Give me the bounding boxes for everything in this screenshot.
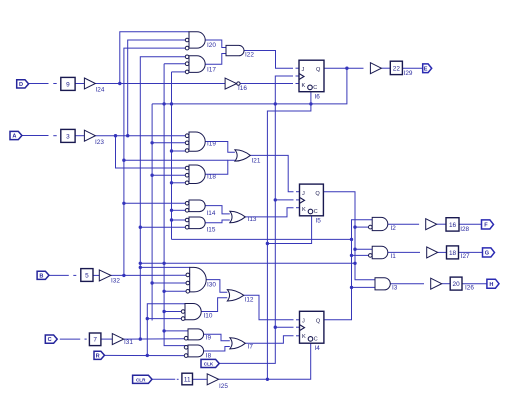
junction Q5 fb right end: [353, 262, 356, 265]
junction CLK tap I5: [274, 198, 277, 201]
svg-text:I10: I10: [204, 312, 213, 319]
wire I3 out to buffer I26: [390, 283, 424, 285]
wire Q of I5 to V2: [323, 192, 375, 280]
wire CLR row dash: [177, 378, 179, 380]
junction CLR link I5: [266, 242, 269, 245]
svg-text:I31: I31: [124, 339, 133, 346]
junction C tap I30: [139, 266, 142, 269]
junction R bracket tap: [146, 317, 149, 320]
wire I21 out to J of I5: [250, 155, 293, 191]
wire I19 out to I21: [205, 142, 235, 153]
junction A drop I18: [114, 134, 117, 137]
and gate I10: [181, 304, 201, 321]
wire C tap to I15 bottom: [140, 226, 185, 228]
wire I29 buffer in: [381, 67, 390, 69]
junction V1 tap I3: [350, 286, 353, 289]
junction CLR on I25 line: [266, 378, 269, 381]
wire Q of I4 to V1: [324, 220, 372, 320]
svg-text:Q: Q: [315, 191, 320, 197]
svg-text:I28: I28: [460, 226, 469, 233]
svg-text:R: R: [96, 353, 100, 359]
junction Q5 tap I30 bottom: [162, 290, 165, 293]
wire CLK stub I4: [296, 326, 299, 328]
junction C tap I15: [139, 226, 142, 229]
wire J stub I4: [296, 319, 299, 321]
wire J stub I6: [296, 67, 299, 69]
svg-text:Q: Q: [316, 318, 321, 324]
wire I1 out to buffer I27: [388, 251, 420, 253]
box 3: [61, 129, 75, 142]
wire B row to I30 second input: [111, 274, 187, 276]
box 20: [450, 277, 462, 290]
svg-text:I1: I1: [391, 253, 397, 260]
wire I17 mid feeder: [164, 63, 185, 65]
svg-text:20: 20: [453, 281, 461, 288]
box 11: [182, 373, 193, 385]
wire D/K net inverter out to K of I6: [241, 83, 294, 85]
wire I28 buffer to box: [437, 223, 446, 225]
wire I7 out to K of I4: [245, 336, 293, 343]
svg-text:I16: I16: [238, 85, 247, 92]
junction Q4 tap I19: [170, 149, 173, 152]
wire I9 out to I7: [203, 334, 229, 340]
wire V1 tap to I3 lower: [352, 286, 376, 288]
junction Q6 tap I18: [150, 174, 153, 177]
junction long feeder left end: [122, 159, 125, 162]
output terminal F: [482, 220, 494, 229]
and gate I17: [185, 55, 205, 74]
svg-text:I26: I26: [465, 284, 474, 291]
svg-text:7: 7: [93, 337, 97, 344]
junction Q6 riser I17 bottom: [170, 102, 173, 105]
wire I28 box to pentagon: [459, 223, 482, 225]
junction Q5 bus source: [162, 262, 165, 265]
or gate I7: [230, 338, 246, 349]
wire Q5 feedback horizontal: [140, 262, 355, 264]
and gate I14: [185, 200, 205, 212]
wire Q5 bus vertical: [164, 64, 186, 346]
svg-text:I13: I13: [248, 216, 257, 223]
and gate I19: [185, 132, 205, 152]
svg-text:C: C: [314, 209, 318, 215]
junction Q4 tap I14: [170, 209, 173, 212]
wire Q4 tap to I14 bottom: [172, 209, 186, 211]
wire Q4 tap to I18 bottom: [172, 182, 186, 184]
svg-text:C: C: [48, 337, 52, 343]
wire I15 out to I13: [205, 220, 230, 223]
junction Q5 tap I9: [162, 329, 165, 332]
wire C row dash: [85, 338, 87, 340]
box 5: [81, 269, 93, 282]
wire CLR link to I5 clear pin: [267, 216, 311, 244]
wire I10 out to I12: [201, 298, 227, 312]
box 7: [89, 333, 101, 346]
input terminal D: [17, 80, 29, 88]
svg-text:I4: I4: [315, 345, 321, 352]
svg-text:I19: I19: [207, 141, 216, 148]
svg-text:I30: I30: [207, 282, 216, 289]
junction Q6 tap I19 mid: [150, 141, 153, 144]
wire Q6 tap to I18 mid: [152, 174, 185, 176]
buffer I26: [431, 278, 442, 289]
input terminal CLK: [201, 359, 219, 367]
svg-text:I9: I9: [206, 335, 212, 342]
output terminal H: [487, 279, 499, 288]
wire D row main to inverter I16: [95, 83, 225, 85]
svg-text:11: 11: [184, 376, 191, 383]
wire D row dash: [53, 83, 56, 85]
wire K stub I4: [296, 335, 299, 337]
wire I20 out to I22: [205, 40, 226, 48]
svg-text:I23: I23: [95, 139, 104, 146]
wire B row dash: [73, 274, 76, 276]
buffer I31: [112, 334, 123, 345]
wire Q4 feedback horizontal: [172, 238, 352, 240]
svg-text:I22: I22: [245, 52, 254, 59]
input terminal R: [94, 351, 105, 359]
wire I2 out to buffer I28: [388, 223, 419, 225]
wire I12 out to J of I4: [244, 295, 294, 320]
svg-text:C: C: [314, 337, 318, 343]
wire CLR pentagon to box 11: [153, 378, 176, 380]
svg-text:5: 5: [85, 272, 89, 279]
wire I13 out to K of I5: [245, 208, 293, 217]
buffer I29: [370, 63, 381, 74]
junction Q5 tap I10: [162, 310, 165, 313]
wire A riser to I20 mid: [128, 40, 186, 136]
svg-text:18: 18: [449, 250, 457, 257]
inverter I16: [225, 78, 240, 89]
box 16: [446, 218, 459, 231]
junction Q4 tap I18: [170, 181, 173, 184]
wire B riser to I20 bottom: [124, 48, 185, 275]
junction CLR pin crossing: [309, 102, 312, 105]
junction Q5 fb left end: [139, 262, 142, 265]
and gate I15: [185, 217, 205, 229]
wire CLK stub I6: [296, 75, 299, 77]
or gate I12: [227, 290, 244, 301]
and gate I8: [184, 345, 203, 357]
svg-text:I14: I14: [207, 210, 216, 217]
svg-text:I29: I29: [404, 70, 413, 77]
or gate I13: [230, 211, 246, 223]
wire CLK tap to I4 clock: [275, 326, 293, 328]
junction Q4 fb right end: [350, 238, 353, 241]
svg-text:D: D: [19, 82, 23, 88]
wire long feeder to I21 lower: [124, 159, 228, 161]
junction B tap I14: [122, 202, 125, 205]
wire CLK row: [219, 76, 293, 363]
input terminal CLR: [133, 375, 152, 383]
svg-text:J: J: [302, 318, 305, 324]
svg-text:A: A: [12, 134, 16, 140]
svg-text:K: K: [302, 334, 306, 340]
input terminal B: [37, 271, 49, 279]
svg-text:K: K: [302, 207, 306, 213]
wire Q5 tap to I30 bottom: [164, 290, 187, 292]
or gate I21: [235, 150, 250, 161]
svg-text:B: B: [39, 273, 43, 279]
wire C input row: [60, 338, 80, 340]
junction A riser on A row: [126, 134, 129, 137]
wire B input row: [49, 274, 69, 276]
wire Q4 tap to I15 top: [172, 219, 186, 221]
wire A drop to I18 top: [116, 136, 186, 168]
box 9: [61, 77, 75, 90]
wire I30 out to I12: [206, 280, 227, 293]
svg-text:J: J: [302, 67, 305, 73]
wire Q6 feedback drop: [151, 104, 153, 321]
wire I27 box to pentagon: [459, 251, 483, 253]
wire B tap to I14 top: [124, 202, 185, 204]
wire Q4 bus vertical: [171, 72, 173, 240]
svg-text:J: J: [302, 191, 305, 197]
wire I18 out to I21: [205, 160, 235, 174]
junction V1 tap I1: [350, 254, 353, 257]
wire A row dash: [53, 135, 56, 137]
wire I22 out to J of I6: [244, 51, 293, 69]
buffer I28: [426, 219, 437, 230]
wire V2 tap to I2 lower: [355, 226, 370, 228]
wire I17 out to I22: [205, 54, 226, 65]
wire C riser to I17 top: [140, 57, 185, 339]
svg-text:I8: I8: [206, 353, 212, 360]
svg-text:I12: I12: [245, 297, 254, 304]
wire V2 tap to I1 top: [355, 248, 372, 250]
svg-text:Q: Q: [316, 67, 321, 73]
wire CLR net I25 out: [219, 343, 311, 379]
buffer I27: [427, 247, 438, 258]
wire A box to buffer: [75, 135, 84, 137]
jk flip-flop I5: [300, 184, 324, 224]
wire D buffer to box gap: [75, 83, 84, 85]
junction V2 tap I2: [353, 225, 356, 228]
output terminal E: [423, 64, 432, 73]
wire I27 buffer to box: [438, 251, 447, 253]
wire A row to I19 top input: [95, 135, 186, 137]
wire R riser bracket: [147, 304, 185, 356]
wire I26 box to pentagon: [462, 283, 487, 285]
wire R input row to I8 lower input: [105, 354, 185, 356]
wire D input row: [29, 83, 49, 85]
box 22: [390, 61, 402, 74]
wire Q5 tap to I10 mid: [164, 311, 183, 313]
svg-text:CLK: CLK: [204, 362, 214, 367]
junction Q6 tap I30: [150, 281, 153, 284]
junction C riser on C row: [139, 337, 142, 340]
wire K stub I6: [296, 83, 299, 85]
wire CLK stub I5: [296, 199, 299, 201]
and gate I20: [185, 32, 205, 50]
junction Q4 tap I15: [170, 218, 173, 221]
wire CLK tap to I5 clock: [275, 199, 293, 201]
and gate I1: [369, 246, 388, 259]
wire Q4 tap to I19 bottom: [172, 150, 186, 152]
wire I29 box to pentagon: [402, 67, 422, 69]
junction CLK crossing Q6 line: [274, 102, 277, 105]
svg-text:16: 16: [449, 222, 457, 229]
and gate I18: [185, 165, 205, 185]
jk flip-flop I6: [299, 60, 324, 100]
svg-text:CLR: CLR: [136, 377, 146, 382]
wire A input row: [22, 135, 49, 137]
svg-text:I6: I6: [315, 94, 321, 101]
svg-text:I24: I24: [96, 87, 105, 94]
wire Q6 feedback horizontal: [152, 68, 347, 104]
svg-text:I5: I5: [316, 218, 322, 225]
svg-text:I18: I18: [207, 174, 216, 181]
wire C tap to I30 top input: [140, 266, 189, 268]
wire CLR riser: [267, 92, 311, 380]
svg-text:I15: I15: [207, 226, 216, 233]
output terminal G: [483, 248, 495, 257]
junction CLK tap I4: [274, 326, 277, 329]
and gate I9: [184, 329, 203, 340]
svg-text:F: F: [484, 223, 488, 229]
buffer I23: [84, 130, 95, 141]
svg-text:3: 3: [66, 133, 70, 140]
wire I8 out to I7: [204, 347, 230, 352]
box 18: [447, 246, 459, 259]
svg-text:I32: I32: [111, 278, 120, 285]
wire Q5 tap to I9 top: [164, 330, 188, 332]
svg-text:I2: I2: [391, 225, 397, 232]
buffer I24: [84, 78, 95, 89]
wire I14 out to I13: [205, 206, 230, 214]
junction R riser on R row: [146, 354, 149, 357]
wire V1 tap to I1 lower: [352, 254, 371, 256]
and gate I22: [226, 45, 244, 55]
junction D riser on D row: [118, 82, 121, 85]
svg-text:C: C: [313, 85, 317, 91]
input terminal A: [10, 131, 22, 139]
svg-text:22: 22: [393, 65, 401, 72]
junction Q6 feedback on Q line: [345, 67, 348, 70]
input terminal C: [45, 335, 57, 343]
wire Q6 tap to I30 third input: [152, 282, 187, 284]
wire Q of I6 to output buffer I29: [324, 67, 364, 69]
wire I17 bottom feeder: [172, 71, 186, 73]
wire J stub I5: [296, 191, 299, 193]
and gate I3: [375, 278, 390, 290]
svg-text:I25: I25: [219, 383, 228, 390]
junction Q6 riser I17 mid: [162, 102, 165, 105]
svg-text:9: 9: [66, 81, 70, 88]
wire Q6 tap to I19 mid: [152, 142, 185, 144]
buffer I32: [99, 270, 111, 281]
svg-text:I27: I27: [461, 253, 470, 260]
wire CLR box to buffer: [193, 378, 207, 380]
svg-text:I7: I7: [248, 344, 254, 351]
svg-text:K: K: [302, 83, 306, 89]
wire C row to I9 lower input: [124, 338, 186, 340]
wire I26 buffer to box: [442, 283, 451, 285]
svg-text:I17: I17: [207, 67, 216, 74]
jk flip-flop I4: [300, 311, 324, 352]
wire K stub I5: [296, 207, 299, 209]
svg-text:I21: I21: [252, 158, 261, 165]
and gate I30: [186, 267, 206, 293]
wire B box to buffer: [93, 274, 99, 276]
and gate I2: [369, 217, 388, 230]
wire D riser to I20 top: [120, 32, 189, 84]
buffer I25: [207, 374, 218, 385]
wire C box to buffer: [101, 338, 112, 340]
svg-text:E: E: [424, 66, 428, 72]
svg-text:G: G: [485, 251, 489, 257]
junction B riser on B row: [122, 274, 125, 277]
junction V2 tap I1: [353, 248, 356, 251]
wire R bracket tap to I10 bottom: [147, 318, 181, 320]
svg-text:I3: I3: [392, 284, 398, 291]
svg-text:I20: I20: [207, 42, 216, 49]
svg-text:H: H: [489, 282, 493, 288]
